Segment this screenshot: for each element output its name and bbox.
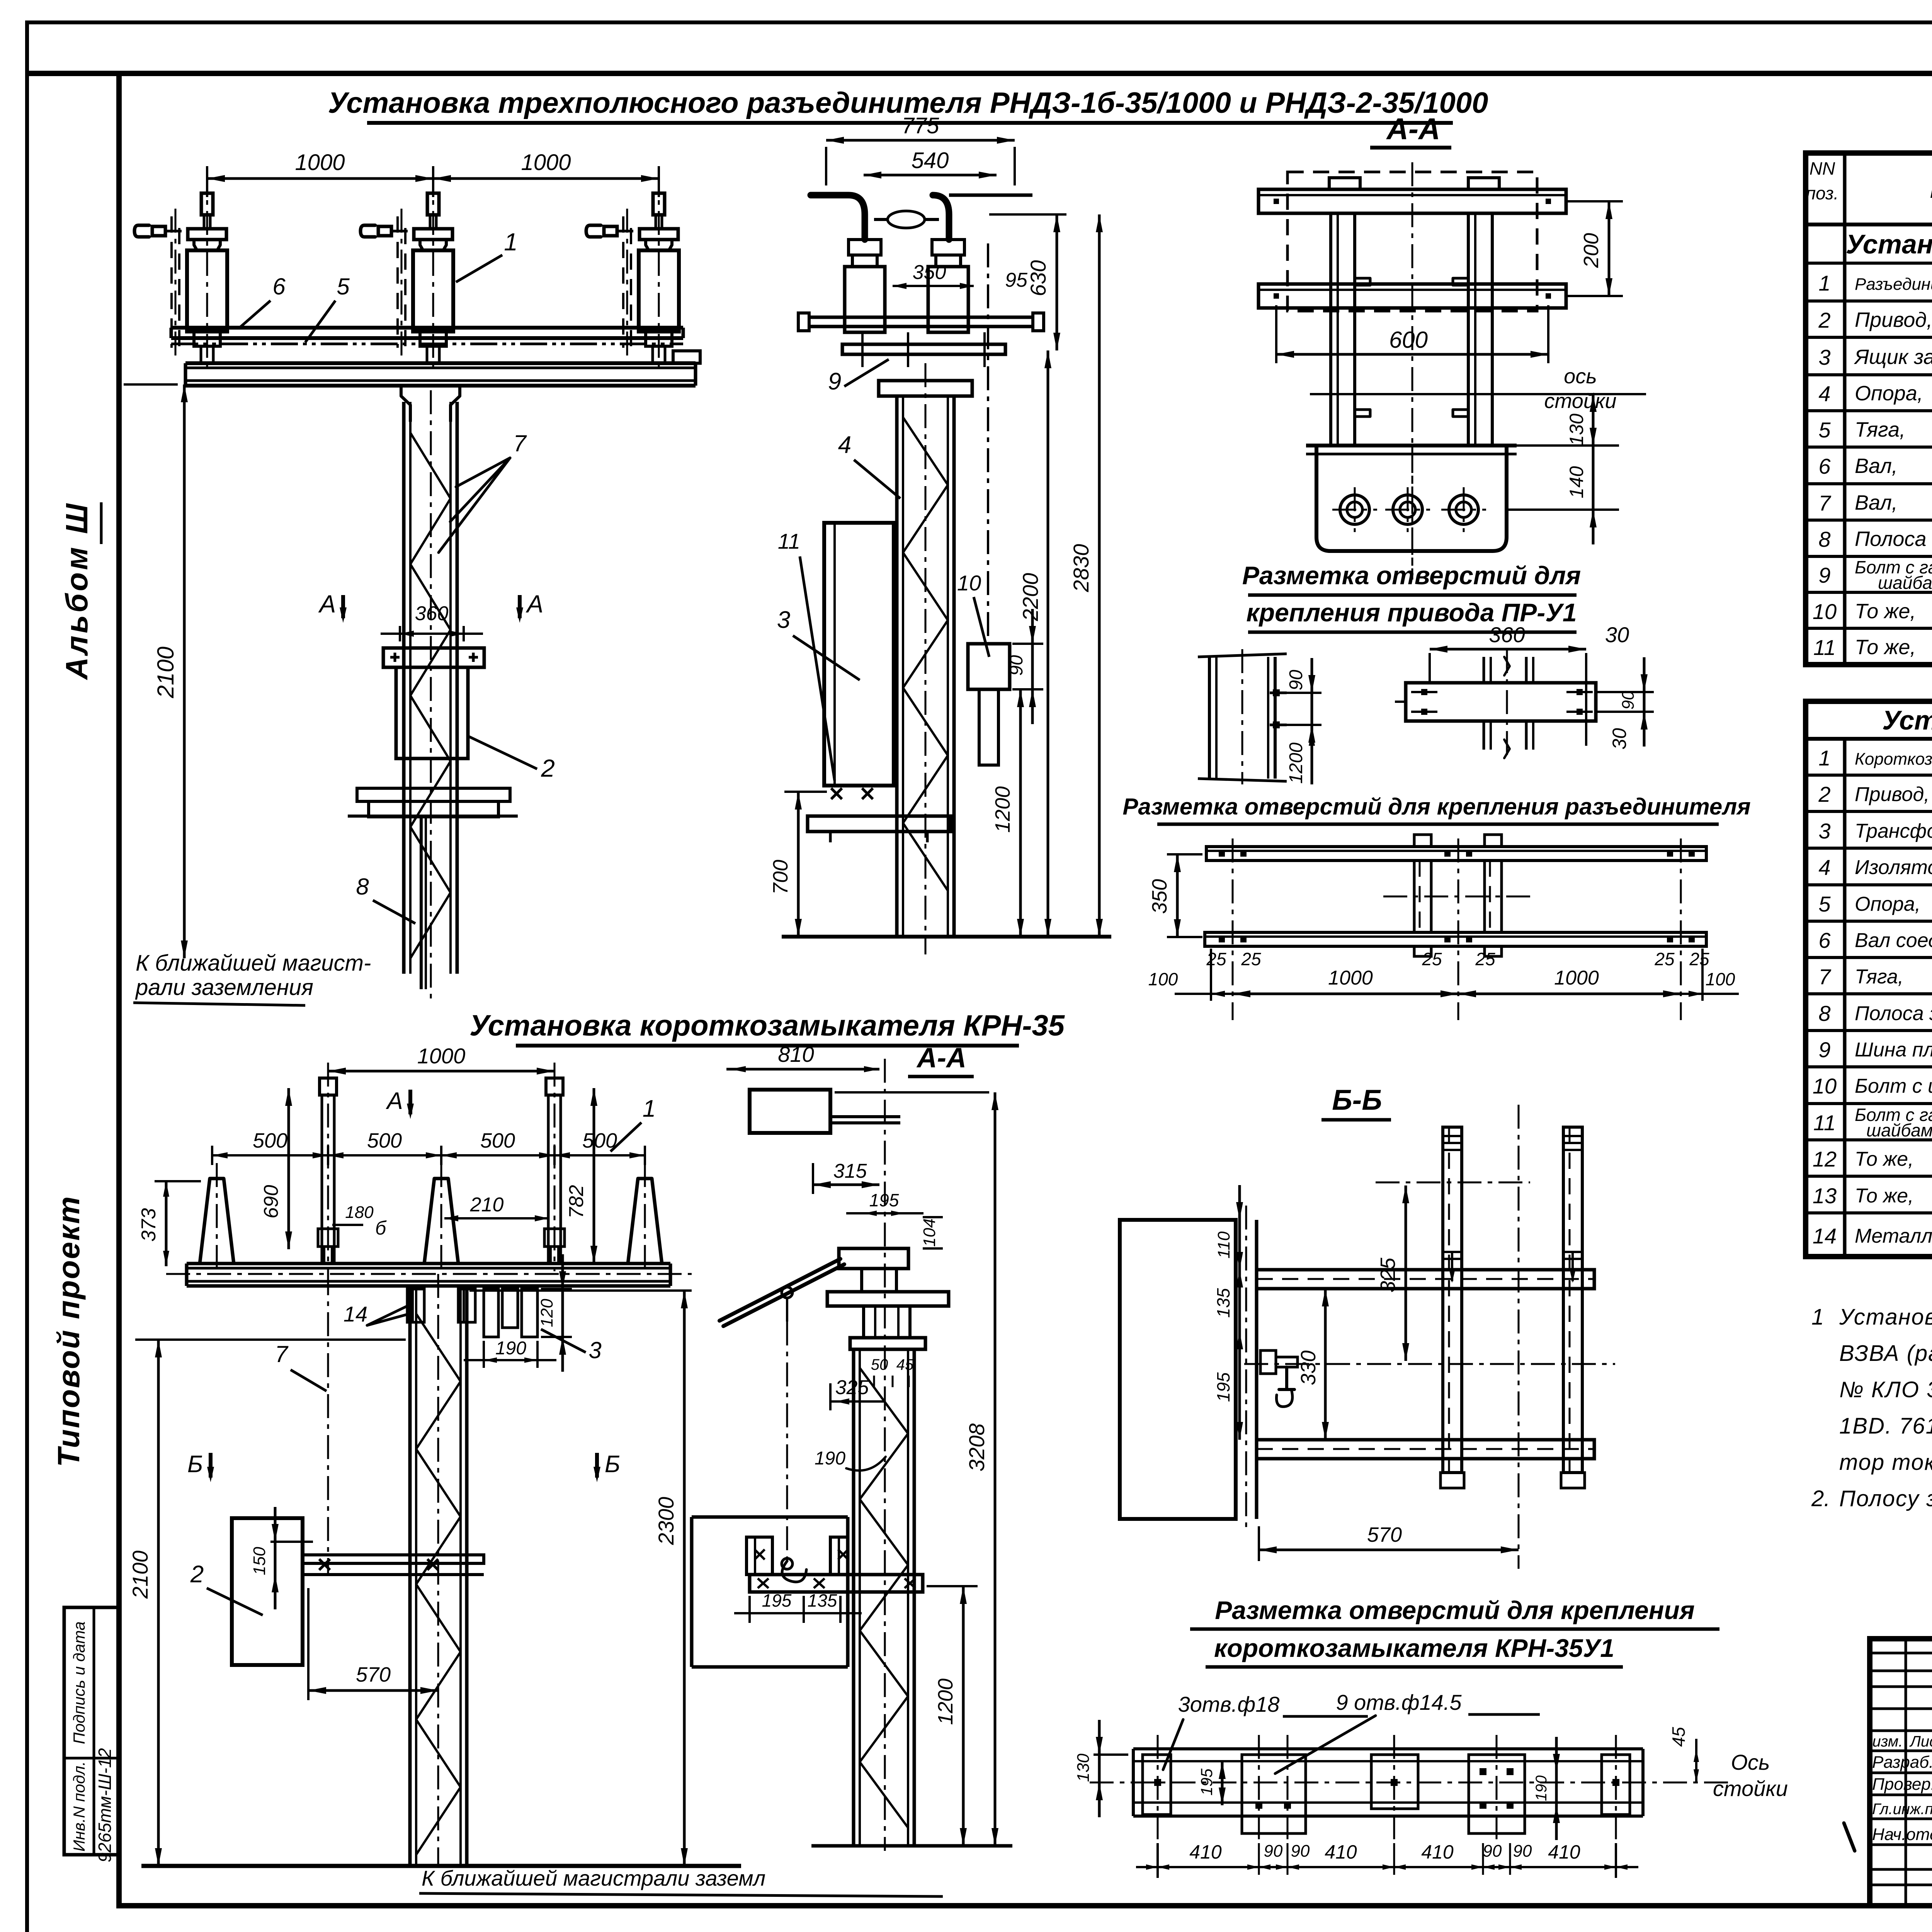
svg-text:135: 135: [1213, 1288, 1233, 1318]
svg-text:поз.: поз.: [1806, 183, 1839, 203]
svg-text:2830: 2830: [1069, 544, 1093, 593]
dimension 190 (view9): [1555, 1772, 1558, 1805]
flexible link oval: [888, 211, 925, 228]
upper beam (Б-Б): [1257, 1270, 1594, 1289]
svg-text:25: 25: [1689, 949, 1709, 969]
channel uprights (Б-Б): [1443, 1127, 1462, 1473]
centre dash-dot (view7 column): [884, 1059, 886, 1851]
insulator ОНС (front) at x=536: [201, 193, 213, 215]
bottom margin line segment: [119, 1903, 1932, 1908]
svg-text:8: 8: [1818, 1001, 1830, 1026]
svg-text:3: 3: [1818, 819, 1830, 843]
insulator ОНС (front) at x=1705: [653, 193, 665, 215]
svg-text:95: 95: [1005, 269, 1028, 291]
centre line А-А: [1412, 162, 1413, 580]
drive box ПРК (item 2): [232, 1518, 303, 1665]
dimension 2200: [1047, 350, 1049, 937]
вал 5 dash-dot-dot line: [171, 343, 683, 345]
svg-text:810: 810: [778, 1042, 814, 1066]
svg-text:1000: 1000: [521, 150, 571, 175]
drive mounting plate: [383, 648, 484, 667]
dimension 360 (hole span): [1430, 648, 1586, 651]
svg-text:Вал,: Вал,: [1855, 491, 1898, 514]
svg-text:короткозамыкателя КРН-35У1: короткозамыкателя КРН-35У1: [1214, 1634, 1614, 1662]
dimension 570 (Б-Б): [1258, 1526, 1260, 1561]
svg-text:90: 90: [1286, 670, 1306, 690]
svg-text:крепления привода ПР-У1: крепления привода ПР-У1: [1246, 598, 1577, 627]
svg-text:шайбами.: шайбами.: [1866, 1120, 1932, 1140]
support insulator ОФ-35-750 at x=1669: [628, 1179, 662, 1264]
traverse beam (верхний пояс): [171, 326, 683, 330]
column top flange (side): [879, 381, 972, 396]
dimension 2100 (column height): [124, 383, 178, 386]
drive rod (view7): [786, 1321, 788, 1561]
svg-text:То же,: То же,: [1855, 1148, 1914, 1170]
svg-text:540: 540: [912, 148, 949, 173]
dimension 130 (view9): [1094, 1753, 1128, 1756]
channel pieces in box: [747, 1537, 772, 1575]
lattice column (side view): [895, 396, 899, 937]
svg-text:А-А: А-А: [916, 1043, 966, 1073]
svg-text:тор тока) и чертежа ОИУ. 1: тор тока) и чертежа ОИУ. 131. 012. 1969г…: [1839, 1450, 1932, 1475]
lattice column (опора): [402, 402, 406, 974]
centre channels between beams: [1413, 861, 1416, 932]
dimension 130: [1592, 394, 1595, 446]
dimension 180 and 210, callout б: [332, 1224, 363, 1226]
svg-text:130: 130: [1074, 1753, 1093, 1782]
dimension 690: [287, 1088, 290, 1249]
svg-text:570: 570: [356, 1663, 391, 1686]
svg-text:Установка разработана на ос: Установка разработана на основании черте…: [1839, 1304, 1932, 1330]
open blade (dashed) left of each insulator: [170, 216, 173, 348]
svg-text:500: 500: [582, 1129, 617, 1152]
column head flange stack: [839, 1248, 908, 1269]
svg-text:изм.: изм.: [1872, 1733, 1903, 1750]
svg-text:373: 373: [138, 1208, 160, 1242]
svg-text:Гл.инж.пр.: Гл.инж.пр.: [1872, 1801, 1932, 1818]
lower beam: [1259, 284, 1566, 308]
svg-text:Нач.отд.: Нач.отд.: [1872, 1825, 1932, 1844]
beam rails (view9): [1133, 1747, 1643, 1750]
beam holes: [1411, 691, 1437, 693]
grounding strip 8: [420, 817, 423, 989]
right sub-view: beam with holes: [1406, 683, 1596, 721]
svg-text:45: 45: [896, 1356, 914, 1373]
svg-text:360: 360: [1489, 622, 1525, 647]
svg-text:Подпись и дата: Подпись и дата: [70, 1621, 88, 1744]
title block outer: [1870, 1639, 1932, 1906]
bolt holes (3) in housing: [1340, 495, 1369, 524]
svg-text:350: 350: [1148, 879, 1171, 914]
callout 2 (drive): [468, 736, 537, 769]
svg-text:Установка разъединителя: Установка разъединителя: [1846, 229, 1932, 259]
drive handle box (item 10): [968, 644, 1010, 689]
insulator ОНС (front) at x=1121: [427, 193, 439, 215]
spec table 1 outer border: [1806, 153, 1932, 665]
dimension 2830: [1098, 214, 1101, 937]
svg-text:782: 782: [565, 1185, 588, 1219]
terminal hooks: [134, 225, 149, 237]
dimension row 500 x4: [212, 1154, 645, 1156]
svg-text:9265тм-Ш-12: 9265тм-Ш-12: [95, 1748, 115, 1862]
sidebar inventory table: [64, 1607, 119, 1855]
svg-text:Б: Б: [187, 1451, 203, 1478]
svg-text:325: 325: [1376, 1257, 1400, 1293]
svg-text:Установка короткозамыкателя: Установка короткозамыкателя: [1882, 705, 1932, 735]
dimension 90 (handle): [1012, 643, 1043, 645]
svg-text:рали заземления: рали заземления: [135, 975, 313, 1000]
dimension 45: [1695, 1739, 1697, 1782]
dimension 195 (view9): [1206, 1760, 1236, 1762]
svg-text:4: 4: [1818, 855, 1830, 879]
svg-text:100: 100: [1148, 969, 1178, 989]
dimension 810: [726, 1068, 879, 1071]
svg-text:1200: 1200: [991, 786, 1014, 833]
svg-text:25: 25: [1241, 949, 1261, 969]
svg-text:А: А: [385, 1088, 403, 1114]
svg-text:А: А: [318, 590, 336, 618]
hook on rod: [782, 1561, 806, 1582]
svg-text:Привод,: Привод,: [1855, 308, 1932, 332]
bolts on arm: [319, 1559, 330, 1570]
svg-text:1: 1: [1811, 1304, 1824, 1330]
svg-text:5: 5: [1818, 418, 1831, 442]
dimension 195/104 (head): [846, 1212, 923, 1214]
cabinet side plate: [1234, 1220, 1238, 1519]
lower beam (Б-Б): [1257, 1440, 1594, 1459]
dashed contour: [1287, 172, 1537, 311]
dimension 110 (Б-Б): [1238, 1220, 1241, 1270]
callout 1 (insulator): [456, 255, 502, 282]
svg-text:3: 3: [777, 607, 790, 633]
svg-text:130: 130: [1566, 413, 1587, 446]
svg-text:Металлоконструкция,: Металлоконструкция,: [1855, 1225, 1932, 1247]
svg-text:Наименование: Наименование: [1930, 175, 1932, 203]
dimension 373: [165, 1181, 168, 1266]
svg-text:10: 10: [1813, 599, 1837, 624]
svg-text:90: 90: [1619, 690, 1638, 709]
svg-text:325: 325: [835, 1376, 869, 1399]
horizontal axis at valve: [1244, 1363, 1615, 1365]
svg-text:190: 190: [815, 1448, 845, 1469]
bottom bracket beam (view7): [750, 1575, 923, 1592]
svg-text:7: 7: [1818, 491, 1831, 515]
svg-text:б: б: [375, 1217, 387, 1239]
svg-text:630: 630: [1026, 260, 1050, 296]
lower beam (разметка): [1205, 932, 1706, 946]
svg-text:8: 8: [356, 874, 369, 900]
svg-text:500: 500: [253, 1129, 287, 1152]
svg-text:25: 25: [1654, 949, 1675, 969]
dimension 150: [270, 1541, 313, 1543]
spec table 2 verticals: [1843, 739, 1847, 1257]
base beam side view: [809, 316, 1033, 319]
title block left grid verticals: [1905, 1639, 1907, 1906]
svg-text:А-А: А-А: [1386, 112, 1440, 146]
drive holes on column: [1270, 692, 1287, 694]
svg-text:8: 8: [1818, 527, 1830, 551]
lower beam feet: [1414, 946, 1431, 956]
svg-text:1000: 1000: [417, 1044, 466, 1068]
svg-text:То же,: То же,: [1855, 600, 1916, 623]
dimension 2100 (view6): [135, 1338, 406, 1341]
svg-text:Полоса заземления,: Полоса заземления,: [1855, 1002, 1932, 1025]
svg-text:200: 200: [1580, 233, 1603, 268]
crossing plates (5): [1143, 1755, 1171, 1815]
svg-text:5: 5: [337, 274, 350, 299]
dimension 1000 + 1000 (phase spacing): [206, 166, 208, 197]
insulator side right: [932, 240, 964, 255]
dimension 325 (view7): [829, 1383, 832, 1410]
svg-text:Установка короткозамыкателя: Установка короткозамыкателя КРН-35: [469, 1009, 1065, 1042]
svg-text:350: 350: [913, 261, 946, 284]
svg-text:9 отв.ф14.5: 9 отв.ф14.5: [1336, 1690, 1462, 1714]
svg-text:1: 1: [1818, 746, 1830, 770]
svg-text:100: 100: [1706, 969, 1735, 989]
svg-text:12: 12: [1813, 1147, 1837, 1171]
support channel beam: [185, 361, 696, 365]
dimension 1200 (view7): [927, 1585, 978, 1587]
svg-text:150: 150: [250, 1547, 269, 1575]
svg-text:1ВD. 761. 127. т.а лист 9, 19: 1ВD. 761. 127. т.а лист 9, 1973г. НПО„ Э…: [1839, 1413, 1932, 1439]
svg-text:195: 195: [869, 1190, 899, 1210]
svg-text:5: 5: [1818, 892, 1831, 916]
traverse (view6): [187, 1262, 670, 1265]
svg-text:шайбами,: шайбами,: [1878, 573, 1932, 593]
dimension 315: [812, 1163, 814, 1194]
svg-text:Лист: Лист: [1909, 1733, 1932, 1750]
svg-text:50: 50: [871, 1356, 888, 1373]
svg-text:6: 6: [1818, 928, 1831, 952]
lower beam holes: [1219, 936, 1225, 942]
svg-text:Ящик зажимов: Ящик зажимов: [1854, 345, 1932, 369]
hole centrelines (view9): [1157, 1735, 1159, 1839]
drive rod dash-dot (view6): [327, 1271, 329, 1575]
bottom bracket (side): [808, 816, 951, 832]
svg-text:315: 315: [833, 1160, 867, 1182]
dimension 195 (Б-Б): [1238, 1332, 1241, 1440]
svg-text:600: 600: [1389, 327, 1428, 353]
svg-text:140: 140: [1566, 466, 1587, 498]
dimension 3208: [835, 1091, 989, 1094]
svg-text:2: 2: [1818, 308, 1830, 332]
svg-text:Разметка отверстий для креплен: Разметка отверстий для крепления разъеди…: [1122, 794, 1750, 820]
svg-text:11: 11: [1813, 635, 1836, 660]
svg-text:6: 6: [272, 274, 286, 299]
dimension 1000 (pole spacing): [328, 1070, 554, 1073]
dimension 782: [593, 1088, 595, 1264]
svg-text:Разметка отверстий для: Разметка отверстий для: [1242, 561, 1581, 590]
dimension 90 (hole spacing): [1275, 692, 1321, 694]
svg-text:1: 1: [504, 228, 518, 256]
support insulator ОФ-35-750 at x=1142: [424, 1179, 458, 1264]
svg-text:2100: 2100: [153, 646, 179, 698]
dimension 570 (view6): [307, 1588, 310, 1700]
svg-text:190: 190: [495, 1338, 526, 1359]
svg-text:7: 7: [513, 430, 527, 456]
svg-text:410: 410: [1189, 1841, 1222, 1863]
svg-text:ВЗВА (разрядник); КЛО,412. 245: ВЗВА (разрядник); КЛО,412. 245. 1973г. В…: [1839, 1341, 1932, 1366]
svg-text:210: 210: [470, 1194, 504, 1216]
svg-text:330: 330: [1297, 1350, 1320, 1385]
svg-text:2: 2: [1818, 782, 1830, 806]
lower plate: [842, 344, 1005, 354]
svg-text:1000: 1000: [1328, 967, 1373, 989]
channel flange hooks: [1355, 278, 1370, 285]
upper beam holes: [1219, 850, 1225, 857]
svg-text:410: 410: [1421, 1841, 1454, 1863]
dimension 2300 (view6): [469, 1289, 692, 1292]
dimension 775 (top): [826, 139, 1015, 142]
svg-text:4: 4: [838, 432, 851, 458]
svg-text:Вал,: Вал,: [1855, 454, 1898, 478]
bottom dimension chain (view9): [1156, 1843, 1159, 1878]
svg-text:Шина плоская стальная,: Шина плоская стальная,: [1855, 1039, 1932, 1061]
svg-text:Провер.: Провер.: [1872, 1775, 1932, 1794]
dimension 200: [1566, 200, 1623, 202]
svg-text:2: 2: [541, 754, 555, 782]
dimension 120: [541, 1288, 572, 1290]
svg-text:ось: ось: [1564, 365, 1597, 388]
svg-text:2200: 2200: [1018, 573, 1043, 622]
dimension 1200 (side): [1019, 689, 1022, 937]
svg-text:Типовой проект: Типовой проект: [51, 1195, 86, 1467]
svg-text:360: 360: [415, 602, 449, 625]
svg-text:410: 410: [1548, 1841, 1580, 1863]
dimension 140: [1592, 446, 1595, 510]
svg-text:14: 14: [344, 1302, 367, 1326]
svg-text:195: 195: [1213, 1372, 1233, 1402]
svg-text:К ближайшей магист-: К ближайшей магист-: [136, 951, 371, 976]
svg-text:К ближайшей магистрали зазе: К ближайшей магистрали заземл: [422, 1866, 765, 1890]
drive lower box (view7): [692, 1515, 848, 1519]
grounding knife (diagonal): [719, 1259, 840, 1321]
svg-text:Разъединитель трехполюсный, ко: Разъединитель трехполюсный, компл.: [1855, 275, 1932, 294]
svg-text:Опора,: Опора,: [1855, 893, 1920, 915]
svg-text:700: 700: [769, 860, 792, 895]
ground line (view6): [141, 1864, 741, 1868]
svg-text:Вал соединительный,: Вал соединительный,: [1855, 929, 1932, 952]
svg-text:То же,: То же,: [1855, 636, 1916, 659]
dimension 325 (Б-Б): [1376, 1182, 1530, 1184]
svg-text:3208: 3208: [964, 1423, 989, 1472]
svg-text:Инв.N подл.: Инв.N подл.: [70, 1761, 88, 1852]
svg-text:стойки: стойки: [1544, 389, 1617, 413]
dimension 630: [989, 213, 1066, 216]
svg-text:11: 11: [1813, 1111, 1836, 1135]
svg-text:1: 1: [1818, 271, 1830, 295]
top margin strip line: [27, 71, 119, 76]
axis Ось стойки: [1090, 1782, 1731, 1784]
top box (КРН head): [750, 1090, 830, 1133]
dimension 540: [864, 174, 997, 177]
svg-text:90: 90: [1513, 1842, 1532, 1861]
svg-text:25: 25: [1206, 949, 1226, 969]
support insulator ОФ-35-750 at x=561: [200, 1179, 234, 1264]
svg-text:13: 13: [1813, 1184, 1837, 1208]
dimension 700: [784, 791, 827, 793]
svg-text:500: 500: [480, 1129, 515, 1152]
spec table 2 row lines: [1806, 774, 1932, 777]
lower bracket: [357, 788, 510, 801]
svg-text:NN: NN: [1810, 158, 1835, 179]
transformer ТШЛ + parts under traverse (item 3): [484, 1289, 498, 1337]
ось стойки label: [1310, 393, 1646, 395]
valve handle detail: [1260, 1350, 1276, 1374]
title block left grid horizontals: [1870, 1652, 1932, 1655]
upper beam: [1259, 189, 1566, 213]
svg-text:6: 6: [1818, 454, 1831, 478]
svg-text:195: 195: [1197, 1768, 1216, 1796]
svg-text:190: 190: [1533, 1776, 1550, 1801]
channel tabs item 14: [407, 1289, 424, 1322]
svg-text:14: 14: [1813, 1224, 1837, 1248]
svg-text:410: 410: [1325, 1841, 1357, 1863]
knife joint circle: [782, 1287, 793, 1298]
svg-text:1000: 1000: [1554, 967, 1599, 989]
insulator side left: [849, 240, 881, 255]
svg-text:Болт с шайбой,: Болт с шайбой,: [1855, 1075, 1932, 1097]
ground line (view2): [782, 935, 1111, 939]
svg-text:110: 110: [1214, 1231, 1233, 1259]
svg-text:2100: 2100: [128, 1551, 152, 1599]
svg-text:Тяга,: Тяга,: [1855, 418, 1905, 441]
svg-text:135: 135: [808, 1590, 837, 1611]
svg-text:Короткозамыкатель двухполюсный: Короткозамыкатель двухполюсный,: [1855, 750, 1932, 769]
drive cabinet box (Б-Б): [1120, 1220, 1236, 1519]
svg-text:1200: 1200: [1286, 742, 1306, 784]
svg-text:Опора,: Опора,: [1855, 382, 1923, 405]
svg-text:25: 25: [1422, 949, 1442, 969]
svg-text:7: 7: [275, 1341, 289, 1367]
bracket arm: [303, 1555, 484, 1563]
svg-text:1000: 1000: [295, 150, 345, 175]
upper beam (разметка): [1206, 847, 1706, 861]
dimension 350 and 95: [893, 285, 974, 287]
svg-text:Разметка отверстий для креп: Разметка отверстий для крепления: [1215, 1596, 1694, 1624]
svg-text:1: 1: [643, 1095, 656, 1122]
dimension 190 under: [483, 1341, 485, 1368]
svg-text:2.: 2.: [1811, 1486, 1830, 1511]
svg-text:195: 195: [762, 1590, 792, 1611]
svg-text:775: 775: [902, 113, 940, 138]
dash-dot axis along traverse: [166, 1273, 692, 1275]
svg-text:90: 90: [1264, 1842, 1283, 1861]
svg-text:Полоса заземления,: Полоса заземления,: [1855, 527, 1932, 551]
svg-text:120: 120: [537, 1299, 556, 1327]
svg-text:30: 30: [1605, 622, 1629, 647]
centre axis (Б-Б): [1518, 1105, 1520, 1569]
svg-text:Полосу заземления к металло: Полосу заземления к металлоконструкции п…: [1839, 1486, 1932, 1511]
column top tee flange: [401, 386, 410, 421]
svg-text:2: 2: [190, 1561, 204, 1588]
svg-text:90: 90: [1291, 1842, 1310, 1861]
svg-text:4: 4: [1818, 381, 1830, 406]
drive housing box: [1316, 446, 1507, 551]
svg-text:3отв.ф18: 3отв.ф18: [1178, 1692, 1280, 1716]
bolts at box bottom: [831, 788, 842, 799]
svg-text:3: 3: [1818, 345, 1830, 369]
drive rod dash-dot: [987, 243, 989, 644]
svg-text:№ КЛО 336. 462. 1976г. В ЗВА: № КЛО 336. 462. 1976г. В ЗВА (короткозам…: [1839, 1377, 1932, 1402]
КРН poles (two): [320, 1078, 337, 1095]
svg-text:500: 500: [367, 1129, 402, 1152]
svg-text:30: 30: [1609, 728, 1630, 750]
svg-text:9: 9: [828, 368, 841, 395]
svg-text:9: 9: [1818, 563, 1830, 587]
svg-text:10: 10: [1813, 1074, 1837, 1098]
dimension 330 (Б-Б): [1324, 1289, 1327, 1440]
